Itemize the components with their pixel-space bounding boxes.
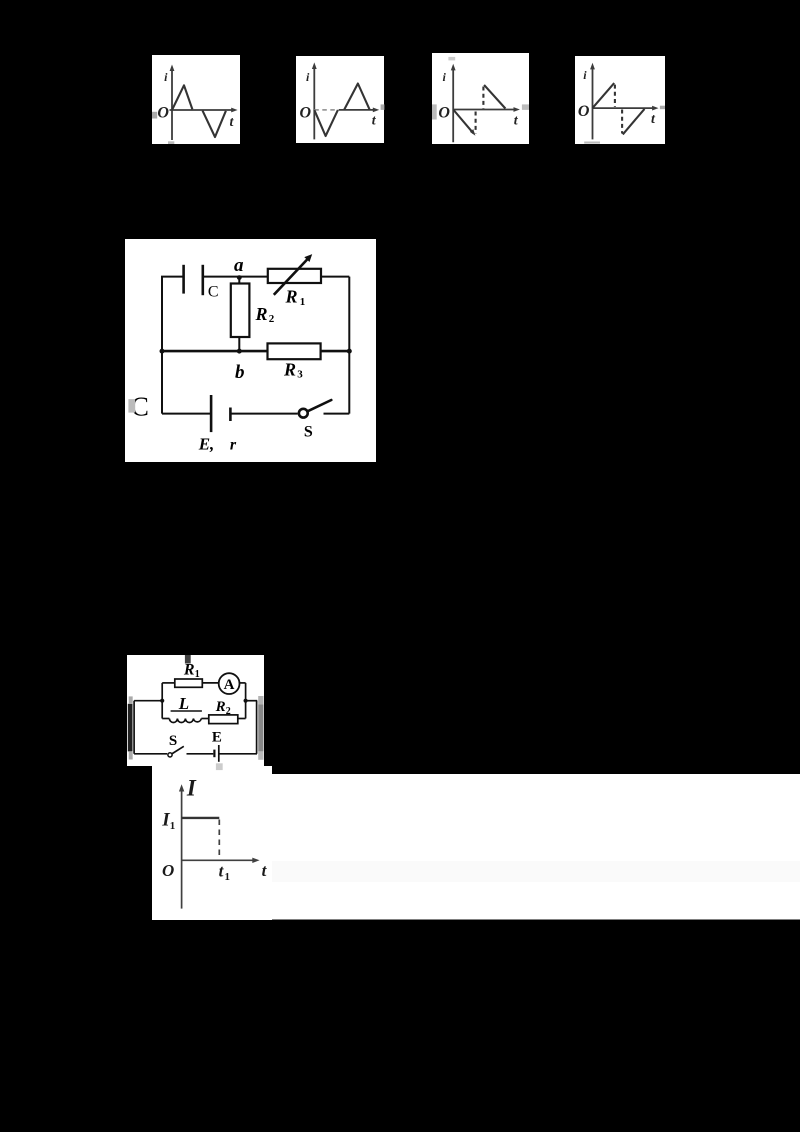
svg-text:1: 1 (225, 871, 231, 883)
svg-text:O: O (162, 861, 174, 880)
svg-text:3: 3 (297, 369, 303, 381)
svg-text:R: R (254, 304, 267, 324)
svg-text:S: S (304, 423, 313, 440)
svg-text:C: C (208, 284, 219, 301)
svg-text:1: 1 (195, 669, 200, 680)
svg-text:R: R (183, 661, 195, 678)
svg-text:I: I (186, 775, 197, 800)
svg-text:R: R (215, 699, 226, 715)
svg-text:a: a (234, 255, 244, 276)
svg-text:S: S (169, 733, 177, 749)
svg-text:L: L (178, 694, 189, 713)
svg-text:R: R (283, 360, 296, 380)
svg-text:O: O (578, 103, 590, 120)
svg-text:E: E (212, 729, 222, 745)
svg-text:O: O (157, 105, 169, 122)
svg-text:E,: E, (198, 434, 215, 453)
svg-text:O: O (438, 105, 450, 122)
svg-text:b: b (235, 362, 245, 383)
svg-text:2: 2 (226, 706, 231, 717)
svg-text:r: r (230, 436, 237, 453)
svg-text:1: 1 (170, 820, 176, 832)
svg-text:1: 1 (300, 296, 306, 308)
svg-text:R: R (284, 287, 297, 307)
svg-text:2: 2 (269, 313, 275, 325)
svg-text:O: O (300, 105, 312, 122)
svg-text:A: A (224, 677, 235, 693)
